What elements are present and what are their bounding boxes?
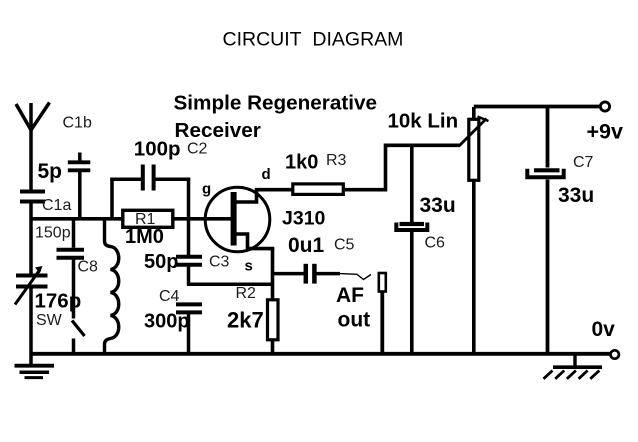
variable capacitor 176p	[15, 266, 81, 313]
svg-text:50p: 50p	[144, 251, 178, 273]
svg-text:C5: C5	[334, 237, 355, 254]
ground left	[15, 366, 55, 378]
svg-text:C7: C7	[573, 154, 594, 171]
svg-text:33u: 33u	[558, 184, 594, 207]
svg-text:33u: 33u	[420, 194, 456, 217]
svg-text:2k7: 2k7	[227, 308, 264, 333]
wire: C3/C4 junction to source node	[187, 283, 274, 287]
resistor R3 1k0	[285, 152, 347, 195]
svg-text:C8: C8	[78, 258, 99, 275]
svg-text:Receiver: Receiver	[175, 119, 261, 142]
svg-text:10k Lin: 10k Lin	[388, 109, 459, 132]
antenna	[16, 103, 50, 191]
terminal +9v	[587, 102, 624, 144]
transistor Q1 J310	[202, 166, 326, 275]
svg-text:1k0: 1k0	[285, 152, 318, 174]
svg-text:100p: 100p	[134, 137, 181, 160]
svg-text:Simple Regenerative: Simple Regenerative	[174, 92, 378, 115]
svg-text:R2: R2	[236, 285, 257, 302]
svg-text:C4: C4	[159, 288, 180, 305]
wire: left rail to bottom rail	[29, 288, 33, 366]
potentiometer 10k Lin	[388, 107, 489, 354]
svg-text:g: g	[202, 181, 211, 198]
resistor R1 1M0	[123, 210, 173, 248]
svg-text:AF: AF	[336, 284, 364, 307]
resistor R2 2k7	[227, 285, 278, 354]
inductor L1	[105, 220, 119, 354]
svg-text:C1b: C1b	[63, 115, 92, 132]
svg-text:out: out	[338, 309, 371, 332]
capacitor C5 0u1	[273, 234, 355, 284]
svg-text:+9v: +9v	[587, 120, 624, 144]
svg-text:300p: 300p	[144, 310, 190, 332]
svg-text:C3: C3	[209, 254, 230, 271]
switch SW	[36, 312, 85, 353]
wire: left rail C1a to variable cap	[29, 203, 33, 274]
wire: bottom rail	[30, 352, 611, 356]
svg-text:s: s	[245, 258, 253, 275]
svg-text:1M0: 1M0	[125, 226, 164, 248]
svg-text:5p: 5p	[38, 160, 63, 183]
wire: source node vertical	[271, 248, 275, 300]
wire: main bus left of R1	[30, 217, 123, 221]
terminal 0v	[592, 318, 619, 359]
svg-text:d: d	[262, 166, 271, 183]
wire: drain to R3	[255, 188, 292, 192]
svg-text:0v: 0v	[592, 318, 616, 341]
ground right	[544, 354, 603, 379]
capacitor C1a	[20, 192, 71, 242]
capacitor C4 300p	[144, 288, 202, 354]
capacitor C2 100p (parallel loop over R1)	[110, 137, 207, 218]
AF out terminal	[336, 273, 386, 354]
wire: R3 to pot wiper	[345, 145, 460, 189]
svg-text:150p: 150p	[35, 225, 71, 242]
capacitor C7 33u	[527, 107, 594, 355]
svg-text:C1a: C1a	[42, 197, 71, 214]
svg-text:C2: C2	[187, 141, 208, 158]
svg-text:SW: SW	[36, 312, 63, 329]
svg-text:R3: R3	[326, 152, 347, 169]
wire: top rail	[474, 105, 600, 109]
wire: bus R1 to gate	[175, 217, 233, 221]
svg-text:C6: C6	[425, 235, 446, 252]
capacitor C8	[57, 220, 99, 319]
capacitor C3 50p	[144, 218, 230, 285]
svg-text:0u1: 0u1	[288, 234, 325, 257]
svg-text:CIRCUIT DIAGRAM: CIRCUIT DIAGRAM	[223, 29, 404, 51]
svg-text:J310: J310	[282, 207, 326, 229]
capacitor C6 33u	[396, 145, 455, 354]
capacitor C1b 5p	[38, 115, 92, 219]
